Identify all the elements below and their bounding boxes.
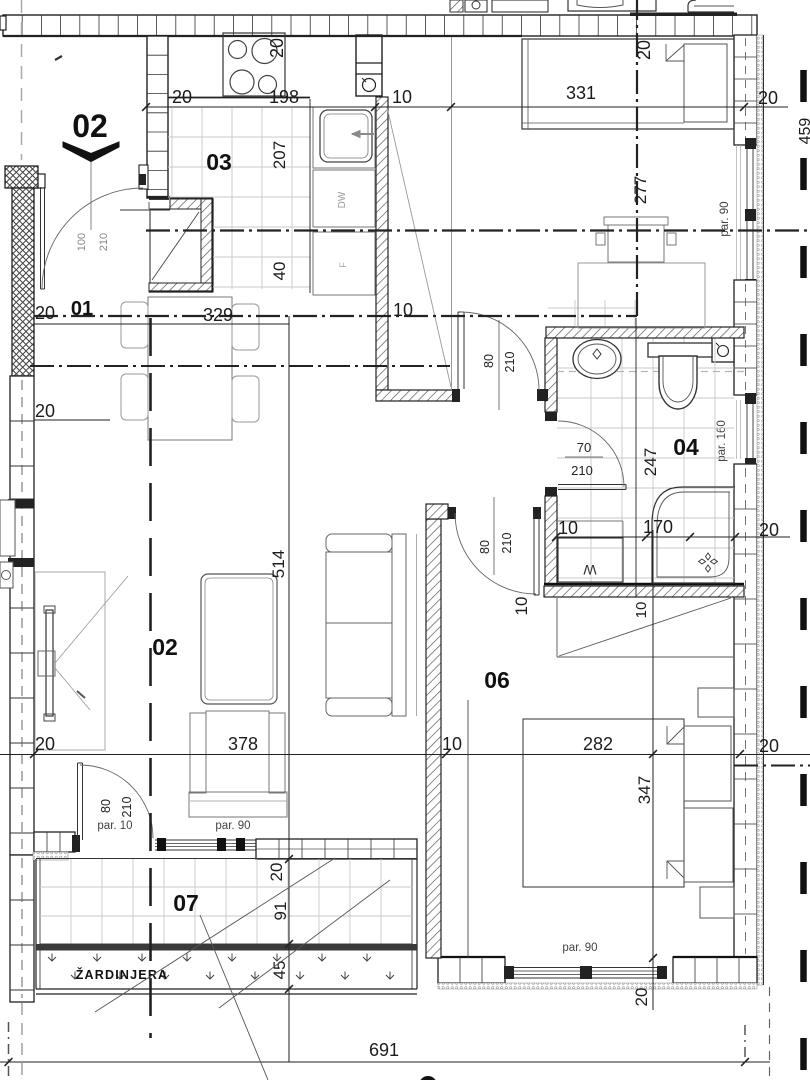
dimline y107 xyxy=(146,106,788,108)
bed05 fold xyxy=(666,44,684,61)
wall north left cap xyxy=(0,16,6,30)
svg-text:10: 10 xyxy=(633,602,650,619)
svg-text:20: 20 xyxy=(759,520,779,540)
small tick topleft xyxy=(55,56,62,60)
coffee table xyxy=(201,574,277,704)
tick t1 xyxy=(142,103,150,111)
wall hall post right xyxy=(537,389,548,401)
line20 left1 xyxy=(34,323,289,325)
zardinjera band xyxy=(36,944,417,951)
tick t11 xyxy=(686,533,694,541)
dimline y1062 xyxy=(0,1061,770,1063)
svg-text:par. 10: par. 10 xyxy=(97,820,132,832)
dim 10 mid xyxy=(393,300,413,320)
wall bath west upper xyxy=(545,338,557,421)
wall hall horizontal xyxy=(376,389,460,402)
svg-text:04: 04 xyxy=(673,434,699,460)
dim 20 rot s06 xyxy=(632,988,651,1007)
svg-text:20: 20 xyxy=(267,38,287,58)
kitchen unit f xyxy=(313,232,375,295)
window south06 xyxy=(504,966,667,979)
balcony door post xyxy=(72,835,80,852)
dim 282 xyxy=(583,734,613,754)
terrace top edge xyxy=(36,858,417,860)
dim 459 right xyxy=(797,118,810,145)
tick t7 xyxy=(649,750,657,758)
stub x769 xyxy=(769,987,771,1080)
room06 door leaf xyxy=(534,513,539,595)
dim 207 xyxy=(270,141,289,169)
bed06 fold1 xyxy=(667,726,684,744)
svg-text:par. 90: par. 90 xyxy=(215,820,250,832)
dim 277 xyxy=(631,176,650,204)
svg-text:210: 210 xyxy=(98,233,110,251)
terr door dims xyxy=(99,797,134,818)
section line right xyxy=(800,70,807,1080)
wall south06 right xyxy=(673,957,757,983)
tick t10 xyxy=(642,533,650,541)
chair d2 xyxy=(121,374,148,420)
svg-text:282: 282 xyxy=(583,734,613,754)
kitchen label 03 xyxy=(206,149,232,175)
wall bath top xyxy=(546,327,744,338)
tv view lines xyxy=(55,576,128,710)
leader terrace 2 xyxy=(200,915,268,1080)
svg-text:20: 20 xyxy=(267,863,286,882)
axis y230 xyxy=(146,229,810,231)
armchair xyxy=(189,711,287,817)
svg-text:331: 331 xyxy=(566,83,596,103)
tick t2 xyxy=(371,103,379,111)
svg-text:100: 100 xyxy=(76,233,88,251)
hall door leaf xyxy=(458,312,464,389)
wall bath bottom xyxy=(544,584,744,597)
balcony door arc xyxy=(80,765,153,838)
nightstand 06b xyxy=(700,887,734,918)
wall east seg3 xyxy=(734,464,757,958)
svg-text:91: 91 xyxy=(271,902,290,921)
apartment arrow xyxy=(63,142,119,162)
tick t15 xyxy=(285,985,293,993)
dim 20 right1 xyxy=(758,88,778,108)
par160 label east xyxy=(716,420,728,462)
planter symbols xyxy=(48,954,394,980)
svg-text:20: 20 xyxy=(35,303,55,323)
bath door leaf xyxy=(558,485,626,490)
svg-text:247: 247 xyxy=(641,448,660,476)
svg-text:02: 02 xyxy=(152,634,178,660)
svg-text:40: 40 xyxy=(270,262,289,281)
terrace tiles xyxy=(40,859,412,944)
washing niche xyxy=(558,521,623,538)
wall bath west lower xyxy=(545,487,557,584)
shower drain xyxy=(699,553,718,572)
svg-text:par. 90: par. 90 xyxy=(562,942,597,954)
tick t16 xyxy=(649,954,657,962)
terrace outline xyxy=(36,859,417,994)
tick t13 xyxy=(285,855,293,863)
wall kitchen west xyxy=(147,36,170,198)
line20 left2 xyxy=(34,419,110,421)
dim 20 right3 xyxy=(759,736,779,756)
dim 20 rot stove xyxy=(267,38,287,58)
bed06 xyxy=(523,719,733,887)
dim 378 xyxy=(228,734,258,754)
dim 198 xyxy=(269,87,299,107)
section circle partial xyxy=(419,1076,437,1080)
chair 05 xyxy=(596,217,676,262)
zardinjera label xyxy=(76,967,169,982)
svg-text:06: 06 xyxy=(484,667,510,693)
svg-text:277: 277 xyxy=(631,176,650,204)
leader terrace 1 xyxy=(95,858,335,1012)
room06 door arc xyxy=(455,513,536,594)
dim 20 left3 xyxy=(35,734,55,754)
dim 10 bath xyxy=(558,518,578,538)
wall south blocks xyxy=(256,839,417,859)
dim 329 xyxy=(203,305,233,325)
chair d1 xyxy=(121,302,148,348)
thickline north 05 xyxy=(630,13,737,17)
svg-text:459: 459 xyxy=(797,118,810,145)
svg-text:210: 210 xyxy=(571,463,593,478)
svg-text:20: 20 xyxy=(35,401,55,421)
insulation east xyxy=(757,35,764,985)
tick 691 r xyxy=(741,1058,749,1066)
kitchen counter line xyxy=(120,199,170,210)
kitchen faucet xyxy=(352,131,374,138)
window east 2 xyxy=(737,393,757,469)
svg-text:02: 02 xyxy=(72,108,108,144)
wardrobe lines 06 xyxy=(557,598,733,657)
hall door arc xyxy=(461,312,539,390)
svg-text:10: 10 xyxy=(442,734,462,754)
tv xyxy=(38,606,55,721)
living label 02 xyxy=(152,634,178,660)
entrance door post xyxy=(139,165,148,189)
dim 691 xyxy=(369,1040,399,1060)
dim10 wall06 xyxy=(633,602,650,619)
svg-text:207: 207 xyxy=(270,141,289,169)
par90 label east xyxy=(719,201,731,236)
stub x8 xyxy=(8,1022,10,1078)
par90 label south06 xyxy=(562,942,597,954)
bath label 04 xyxy=(673,434,699,460)
hall door dims xyxy=(482,320,517,410)
room06 door post xyxy=(533,507,541,519)
wall east seg1 xyxy=(734,35,757,145)
arrow stem xyxy=(90,162,92,230)
chair d3 xyxy=(232,304,259,350)
bath grayline xyxy=(557,371,744,373)
bath shower xyxy=(652,487,735,583)
dim 20 right2 xyxy=(759,520,779,540)
svg-text:170: 170 xyxy=(643,517,673,537)
room06 door dims xyxy=(478,497,514,575)
tick t4 xyxy=(447,103,455,111)
svg-text:80: 80 xyxy=(482,354,496,368)
fixture top tub xyxy=(568,0,656,11)
svg-text:10: 10 xyxy=(393,300,413,320)
tick t3 xyxy=(740,103,748,111)
dim 10 top xyxy=(392,87,412,107)
wall west terrace xyxy=(10,855,34,1002)
svg-text:DW: DW xyxy=(337,191,348,208)
wall kitchen east xyxy=(376,97,388,390)
dim 91 xyxy=(271,902,290,921)
vert dimline x653 xyxy=(652,530,654,1010)
bath wc xyxy=(648,343,712,409)
kitchen island shaft xyxy=(149,198,213,292)
bed05 xyxy=(522,39,734,129)
wall west caps xyxy=(8,499,34,567)
fixture top A xyxy=(450,0,487,12)
svg-text:20: 20 xyxy=(759,736,779,756)
svg-text:20: 20 xyxy=(632,988,651,1007)
bath lobby tiles xyxy=(548,300,637,326)
dim10 wardrobe xyxy=(512,597,531,616)
dim 347 xyxy=(635,776,654,804)
wall room06 west xyxy=(426,504,456,958)
kitchen sink unit xyxy=(313,107,375,168)
kitchen tiles xyxy=(168,108,310,289)
svg-text:10: 10 xyxy=(392,87,412,107)
bed06 fold2 xyxy=(667,861,684,879)
svg-text:198: 198 xyxy=(269,87,299,107)
tick 691 l xyxy=(5,1058,13,1066)
dim 45 xyxy=(270,961,289,980)
tick t14 xyxy=(285,940,293,948)
wall east seg2 xyxy=(734,280,757,395)
wall west crosshatch top xyxy=(5,166,38,188)
svg-text:07: 07 xyxy=(173,890,199,916)
room06 label xyxy=(484,667,510,693)
bath door dims xyxy=(565,440,603,478)
entrance dims xyxy=(76,233,110,251)
svg-text:378: 378 xyxy=(228,734,258,754)
axis y366 xyxy=(30,365,450,367)
svg-text:par. 160: par. 160 xyxy=(716,420,728,462)
entrance door top post xyxy=(34,174,45,188)
dimline y754 xyxy=(0,754,810,756)
leader diag kitchen xyxy=(387,107,451,387)
svg-text:ŽARDINJERA: ŽARDINJERA xyxy=(76,967,169,982)
dim 20 left2 xyxy=(35,401,55,421)
svg-text:F: F xyxy=(338,262,348,268)
svg-text:45: 45 xyxy=(270,961,289,980)
svg-text:W: W xyxy=(583,562,597,578)
kitchen dw xyxy=(313,170,375,227)
dining table xyxy=(148,297,232,440)
insulation south-left xyxy=(33,852,68,860)
dim 20 rot north xyxy=(634,40,654,60)
dim 20 left1 xyxy=(35,303,55,323)
kitchen counter front xyxy=(168,98,310,294)
stove xyxy=(223,33,285,96)
dim 10 bot xyxy=(442,734,462,754)
dimline y537 xyxy=(556,536,790,538)
wall south-left piece xyxy=(34,832,75,852)
svg-text:80: 80 xyxy=(99,799,113,813)
entrance door arc xyxy=(42,188,143,289)
wall south06 left xyxy=(438,957,505,983)
bath door arc xyxy=(558,421,624,487)
svg-text:347: 347 xyxy=(635,776,654,804)
shaft west boxes xyxy=(0,500,15,588)
gray dashdot x22 bottom xyxy=(21,1003,23,1080)
svg-text:210: 210 xyxy=(120,797,134,818)
svg-text:514: 514 xyxy=(269,550,288,578)
insulation south06 xyxy=(438,983,757,989)
axis y765 stub xyxy=(734,765,810,767)
svg-text:10: 10 xyxy=(558,518,578,538)
nightstand 06a xyxy=(698,688,734,717)
chair d4 xyxy=(232,376,259,422)
svg-text:691: 691 xyxy=(369,1040,399,1060)
dim 170 xyxy=(643,517,673,537)
vent box bath xyxy=(712,337,734,362)
dim 20 kitchen xyxy=(172,87,192,107)
dim 40 xyxy=(270,262,289,281)
dim 514 xyxy=(269,550,288,578)
axis y316 xyxy=(34,0,637,316)
bath sink xyxy=(573,340,621,379)
tick t9 xyxy=(552,533,560,541)
dim 20 terr xyxy=(267,863,286,882)
svg-text:329: 329 xyxy=(203,305,233,325)
wall north band xyxy=(3,15,757,36)
stub x745 xyxy=(744,1025,746,1062)
bathroom tiles xyxy=(557,338,734,583)
svg-text:20: 20 xyxy=(634,40,654,60)
entrance door leaf xyxy=(41,187,45,289)
apartment label 02 xyxy=(72,108,108,144)
tv cabinet xyxy=(35,572,105,750)
svg-text:210: 210 xyxy=(503,352,517,373)
fixture top B xyxy=(492,0,548,12)
svg-text:10: 10 xyxy=(512,597,531,616)
svg-text:80: 80 xyxy=(478,540,492,554)
fixture top D xyxy=(688,0,734,12)
balcony door leaf xyxy=(78,763,83,840)
washing machine xyxy=(558,538,623,582)
vert dimline x636 xyxy=(635,318,637,597)
svg-text:70: 70 xyxy=(577,440,591,455)
svg-text:20: 20 xyxy=(758,88,778,108)
terrace label 07 xyxy=(173,890,199,916)
svg-text:03: 03 xyxy=(206,149,232,175)
svg-text:210: 210 xyxy=(500,533,514,554)
wall west crosshatch xyxy=(12,188,34,376)
svg-text:20: 20 xyxy=(172,87,192,107)
dim 331 xyxy=(566,83,596,103)
vert dimline x289 xyxy=(288,316,290,1062)
gray dashed x21 top xyxy=(21,0,23,160)
hall label 01 xyxy=(71,298,93,320)
tick t12 xyxy=(731,533,739,541)
desk 05 xyxy=(578,263,705,328)
vert dashed x150 xyxy=(149,318,152,1038)
tick t6 xyxy=(442,750,450,758)
tick t5 xyxy=(30,750,38,758)
flooring line 05 xyxy=(451,37,453,390)
bath 247 xyxy=(641,448,660,476)
boiler cabinet xyxy=(356,35,382,96)
leader terrace 3 xyxy=(219,880,390,1008)
wall west blocks xyxy=(10,376,34,855)
par10 label xyxy=(97,820,132,832)
tick t8 xyxy=(736,750,744,758)
sofa xyxy=(326,534,417,716)
par90 label terr xyxy=(215,820,250,832)
window east 1 xyxy=(737,138,757,290)
window south par90 xyxy=(155,838,256,851)
vert line x468 xyxy=(467,700,469,958)
